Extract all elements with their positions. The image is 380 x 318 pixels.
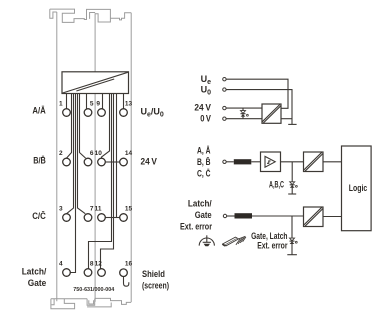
svg-text:Latch/: Latch/ <box>188 199 212 209</box>
svg-text:8: 8 <box>90 260 94 267</box>
svg-text:Ext. error: Ext. error <box>257 241 288 251</box>
svg-text:1: 1 <box>59 100 63 107</box>
svg-text:Gate: Gate <box>195 210 212 220</box>
svg-text:11: 11 <box>95 205 102 212</box>
svg-text:(screen): (screen) <box>142 281 169 291</box>
svg-text:C, C̄: C, C̄ <box>197 168 211 178</box>
svg-text:A, Ā: A, Ā <box>197 146 211 156</box>
svg-text:B/B̄: B/B̄ <box>33 155 46 165</box>
svg-text:10: 10 <box>95 150 103 157</box>
svg-text:B, B̄: B, B̄ <box>197 157 211 167</box>
svg-text:3: 3 <box>59 205 63 212</box>
svg-text:15: 15 <box>125 205 133 212</box>
svg-text:Ue/U0: Ue/U0 <box>141 107 164 119</box>
svg-text:Latch/: Latch/ <box>22 266 47 276</box>
svg-text:A/Ā: A/Ā <box>32 106 46 116</box>
svg-text:0 V: 0 V <box>200 113 211 123</box>
svg-text:14: 14 <box>125 150 133 157</box>
svg-text:4: 4 <box>59 260 63 267</box>
svg-text:9: 9 <box>96 100 100 107</box>
svg-text:Ext. error: Ext. error <box>180 222 212 232</box>
svg-text:Shield: Shield <box>142 269 165 279</box>
svg-text:U0: U0 <box>201 85 212 97</box>
svg-text:13: 13 <box>125 100 133 107</box>
svg-text:C/C̄: C/C̄ <box>32 211 46 221</box>
svg-text:A,B,C: A,B,C <box>269 179 284 189</box>
svg-text:24 V: 24 V <box>141 157 157 167</box>
svg-text:12: 12 <box>95 260 103 267</box>
svg-text:750-631/000-004: 750-631/000-004 <box>73 287 114 293</box>
svg-text:2: 2 <box>59 150 63 157</box>
svg-text:Gate: Gate <box>28 278 47 288</box>
svg-text:6: 6 <box>90 150 94 157</box>
svg-text:16: 16 <box>125 260 133 267</box>
svg-text:24 V: 24 V <box>194 103 211 113</box>
svg-text:7: 7 <box>90 205 94 212</box>
svg-text:5: 5 <box>90 100 94 107</box>
svg-text:Logic: Logic <box>349 183 368 194</box>
